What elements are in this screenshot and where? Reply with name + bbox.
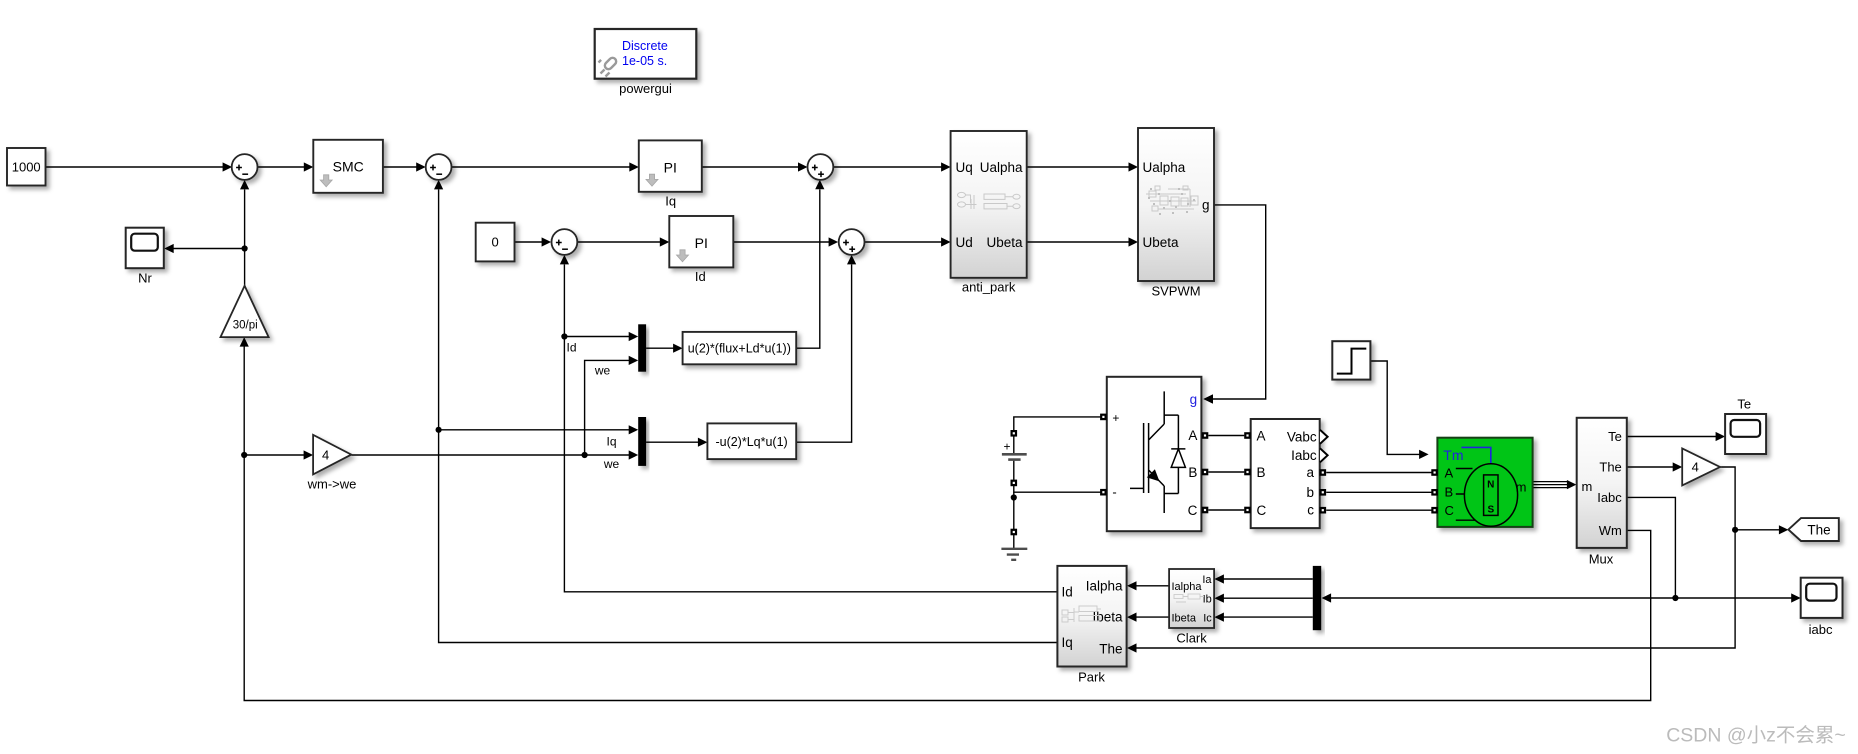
wire SVPWM g to inverter g [1213,205,1266,399]
svg-text:The: The [1099,641,1122,656]
svg-text:we: we [594,364,611,378]
svg-text:Iq: Iq [606,435,616,449]
svg-text:Te: Te [1608,429,1622,444]
wire measurement c to motor C [1326,509,1431,511]
svg-text:g: g [1190,392,1198,407]
svg-text:A: A [1188,428,1197,443]
wire anti_park Ubeta to SVPWM Ubeta [1027,241,1130,243]
svg-text:Id: Id [566,341,576,355]
svg-text:Te: Te [1737,396,1751,411]
svg-text:Id: Id [695,269,706,284]
demux bar [1313,566,1321,630]
svg-text:a: a [1306,465,1314,480]
subsystem PI Iq [639,140,702,191]
junction Nr tap [242,245,248,251]
svg-text:m: m [1582,479,1593,494]
PMSM machine block green [1437,438,1532,527]
wire 1000 to sum1 [46,166,224,168]
constant 0 [476,223,515,262]
svg-text:c: c [1307,503,1314,518]
svg-text:Ubeta: Ubeta [986,235,1023,250]
svg-text:PI: PI [695,235,708,251]
svg-text:Mux: Mux [1589,552,1614,567]
svg-text:+: + [1112,411,1119,425]
bus motor m to Mux [1533,481,1568,483]
svg-text:anti_park: anti_park [962,280,1016,295]
wire sum5 to anti_park Ud [864,241,942,243]
svg-text:Ib: Ib [1203,594,1212,606]
three-phase VI measurement block [1251,419,1320,528]
gain wm-we triangle [313,435,351,475]
scope Te [1725,414,1766,454]
inverter universal bridge [1107,377,1202,531]
svg-text:Ia: Ia [1202,574,1212,586]
sum S2 Iq error [426,154,452,180]
wire sum1 to SMC [258,166,305,168]
svg-text:g: g [1202,198,1210,213]
svg-text:C: C [1445,503,1454,518]
fcn block -u(2)*Lq*u(1) [707,423,796,459]
wire mux1 to fcn1 [646,347,674,349]
svg-text:wm->we: wm->we [307,476,357,491]
svg-text:30/pi: 30/pi [233,319,258,331]
wire speed feedback Wm from Mux to sum1 via 30/pi [244,455,1651,701]
subsystem SVPWM [1138,128,1214,281]
svg-text:4: 4 [322,447,329,462]
svg-text:SMC: SMC [333,159,364,175]
wire demux to Clark Ia [1223,578,1313,580]
svg-text:Clark: Clark [1176,630,1207,645]
svg-text:A: A [1445,465,1454,480]
svg-text:Iq: Iq [1062,635,1073,650]
svg-text:C: C [1257,503,1267,518]
gain 30/pi triangle [221,286,269,337]
svg-text:1000: 1000 [12,160,41,175]
powergui block [595,29,697,79]
mux bar M2 [638,417,646,466]
svg-text:Uq: Uq [956,160,973,175]
wire step to motor Tm [1370,361,1419,454]
wire SMC to sum2 [383,166,417,168]
wire inverter B to measurement B [1208,471,1244,473]
wire inverter C to measurement C [1208,509,1244,511]
sum S5 Ud [839,229,865,255]
svg-text:+: + [1003,440,1010,454]
svg-text:Park: Park [1078,669,1105,684]
svg-text:Ialpha: Ialpha [1172,581,1203,593]
svg-text:The: The [1599,460,1621,475]
PMSM rotor circle and magnet [1464,464,1517,527]
svg-text:SVPWM: SVPWM [1151,284,1200,299]
subsystem Park [1057,566,1126,667]
Vabc unconnected chevron [1320,430,1328,444]
ground [1011,529,1018,536]
wire fcn2 to sum5 [796,265,851,443]
wire battery minus to inverter minus and ground [1014,486,1101,493]
subsystem Clark [1169,569,1214,628]
PMSM Tm blue wire icon [1461,447,1490,463]
wire Clark Ialpha to Park [1136,585,1169,587]
anti_park inner icon [958,192,1021,209]
wire PI Id to sum5 [733,241,829,243]
sum S1 speed error [232,154,258,180]
svg-text:iabc: iabc [1809,622,1833,637]
step block [1332,341,1370,379]
svg-text:Ibeta: Ibeta [1172,612,1197,624]
svg-text:-u(2)*Lq*u(1): -u(2)*Lq*u(1) [715,435,787,449]
svg-text:S: S [1487,505,1494,516]
wire demux to Clark Ib [1223,597,1313,599]
wire iabc line to demux [1330,597,1675,599]
wire Iq feedback from Park to sum2 [439,190,1058,643]
mux bar M1 [638,324,646,371]
sum S4 Id error [552,229,578,255]
wire battery plus to inverter plus [1014,417,1101,431]
svg-text:B: B [1188,465,1197,480]
svg-text:Nr: Nr [138,271,152,286]
gain 4 triangle right [1682,448,1720,485]
svg-text:Ualpha: Ualpha [1143,160,1186,175]
svg-text:CSDN @小z不会累~: CSDN @小z不会累~ [1666,725,1846,747]
svg-text:Wm: Wm [1599,523,1622,538]
svg-text:1e-05 s.: 1e-05 s. [622,54,667,68]
scope iabc [1801,578,1843,618]
wire mux2 to fcn2 [646,441,699,443]
SVPWM inner icon [1146,186,1198,211]
svg-text:Tm: Tm [1443,447,1463,463]
wire PI Iq to sum3 [702,166,799,168]
svg-text:powergui: powergui [619,81,672,96]
svg-text:Iabc: Iabc [1291,448,1317,463]
wire we from gain to mux bars [351,454,629,456]
svg-text:PI: PI [664,160,677,176]
wire Mux Te to scope Te [1627,436,1717,438]
svg-text:-: - [1112,485,1116,500]
fcn block u(2)*(flux+Ld*u(1)) [683,332,797,364]
svg-text:b: b [1306,485,1314,500]
svg-text:Ud: Ud [956,235,973,250]
svg-text:The: The [1807,522,1830,537]
wire gain to The tag and Park The feedback [1136,467,1735,648]
wire sum4 to PI Id [577,241,661,243]
subsystem anti_park [951,131,1027,278]
wire measurement a to motor A [1326,472,1431,474]
wire Clark Ibeta to Park [1136,616,1169,618]
Clark inner icon [1174,594,1204,602]
wire anti_park Ualpha to SVPWM Ualpha [1027,166,1130,168]
subsystem PI Id [669,216,733,267]
wire Mux Iabc down to iabc line [1627,497,1676,598]
svg-text:Discrete: Discrete [622,39,668,53]
svg-text:B: B [1445,485,1454,500]
PMSM inner port stubs [1456,469,1475,521]
svg-text:C: C [1188,503,1198,518]
wire Id feedback from Park to sum4 [564,265,1057,592]
svg-text:Ic: Ic [1203,612,1212,624]
svg-text:Id: Id [1062,584,1073,599]
inverter IGBT and diode icon [1130,391,1185,513]
svg-text:Ialpha: Ialpha [1086,578,1123,593]
Mux bus selector block [1577,418,1627,548]
svg-text:u(2)*(flux+Ld*u(1)): u(2)*(flux+Ld*u(1)) [688,342,791,356]
Iabc unconnected chevron [1320,448,1328,462]
svg-text:0: 0 [491,235,498,250]
svg-text:Iabc: Iabc [1597,490,1622,505]
svg-text:Vabc: Vabc [1287,429,1317,444]
powergui broken link icon [599,56,618,76]
Park inner icon [1062,606,1102,622]
svg-text:4: 4 [1692,460,1699,475]
constant 1000 [7,148,46,186]
svg-text:Iq: Iq [665,193,676,208]
scope Nr [126,228,164,269]
junction Wm to gain wm-we [241,452,247,458]
svg-text:N: N [1487,480,1494,491]
wire measurement b to motor B [1326,491,1431,493]
sum S3 Uq [808,154,834,180]
wire iabc line to scope iabc [1675,597,1792,599]
wire Mux The to gain [1627,466,1674,468]
subsystem SMC [313,140,383,193]
DC voltage source battery [1011,430,1018,437]
wire sum2 to PI Iq [452,166,631,168]
wire const0 to sum4 [515,241,543,243]
svg-text:Ubeta: Ubeta [1143,235,1180,250]
wire sum3 to anti_park Uq [833,166,941,168]
svg-text:B: B [1257,465,1266,480]
svg-text:Ualpha: Ualpha [980,160,1023,175]
wire inverter A to measurement A [1208,435,1244,437]
wire fcn1 to sum3 [796,189,820,348]
svg-text:A: A [1257,428,1266,443]
svg-text:we: we [603,457,620,471]
goto tag The [1788,518,1838,541]
wire demux to Clark Ic [1223,616,1313,618]
